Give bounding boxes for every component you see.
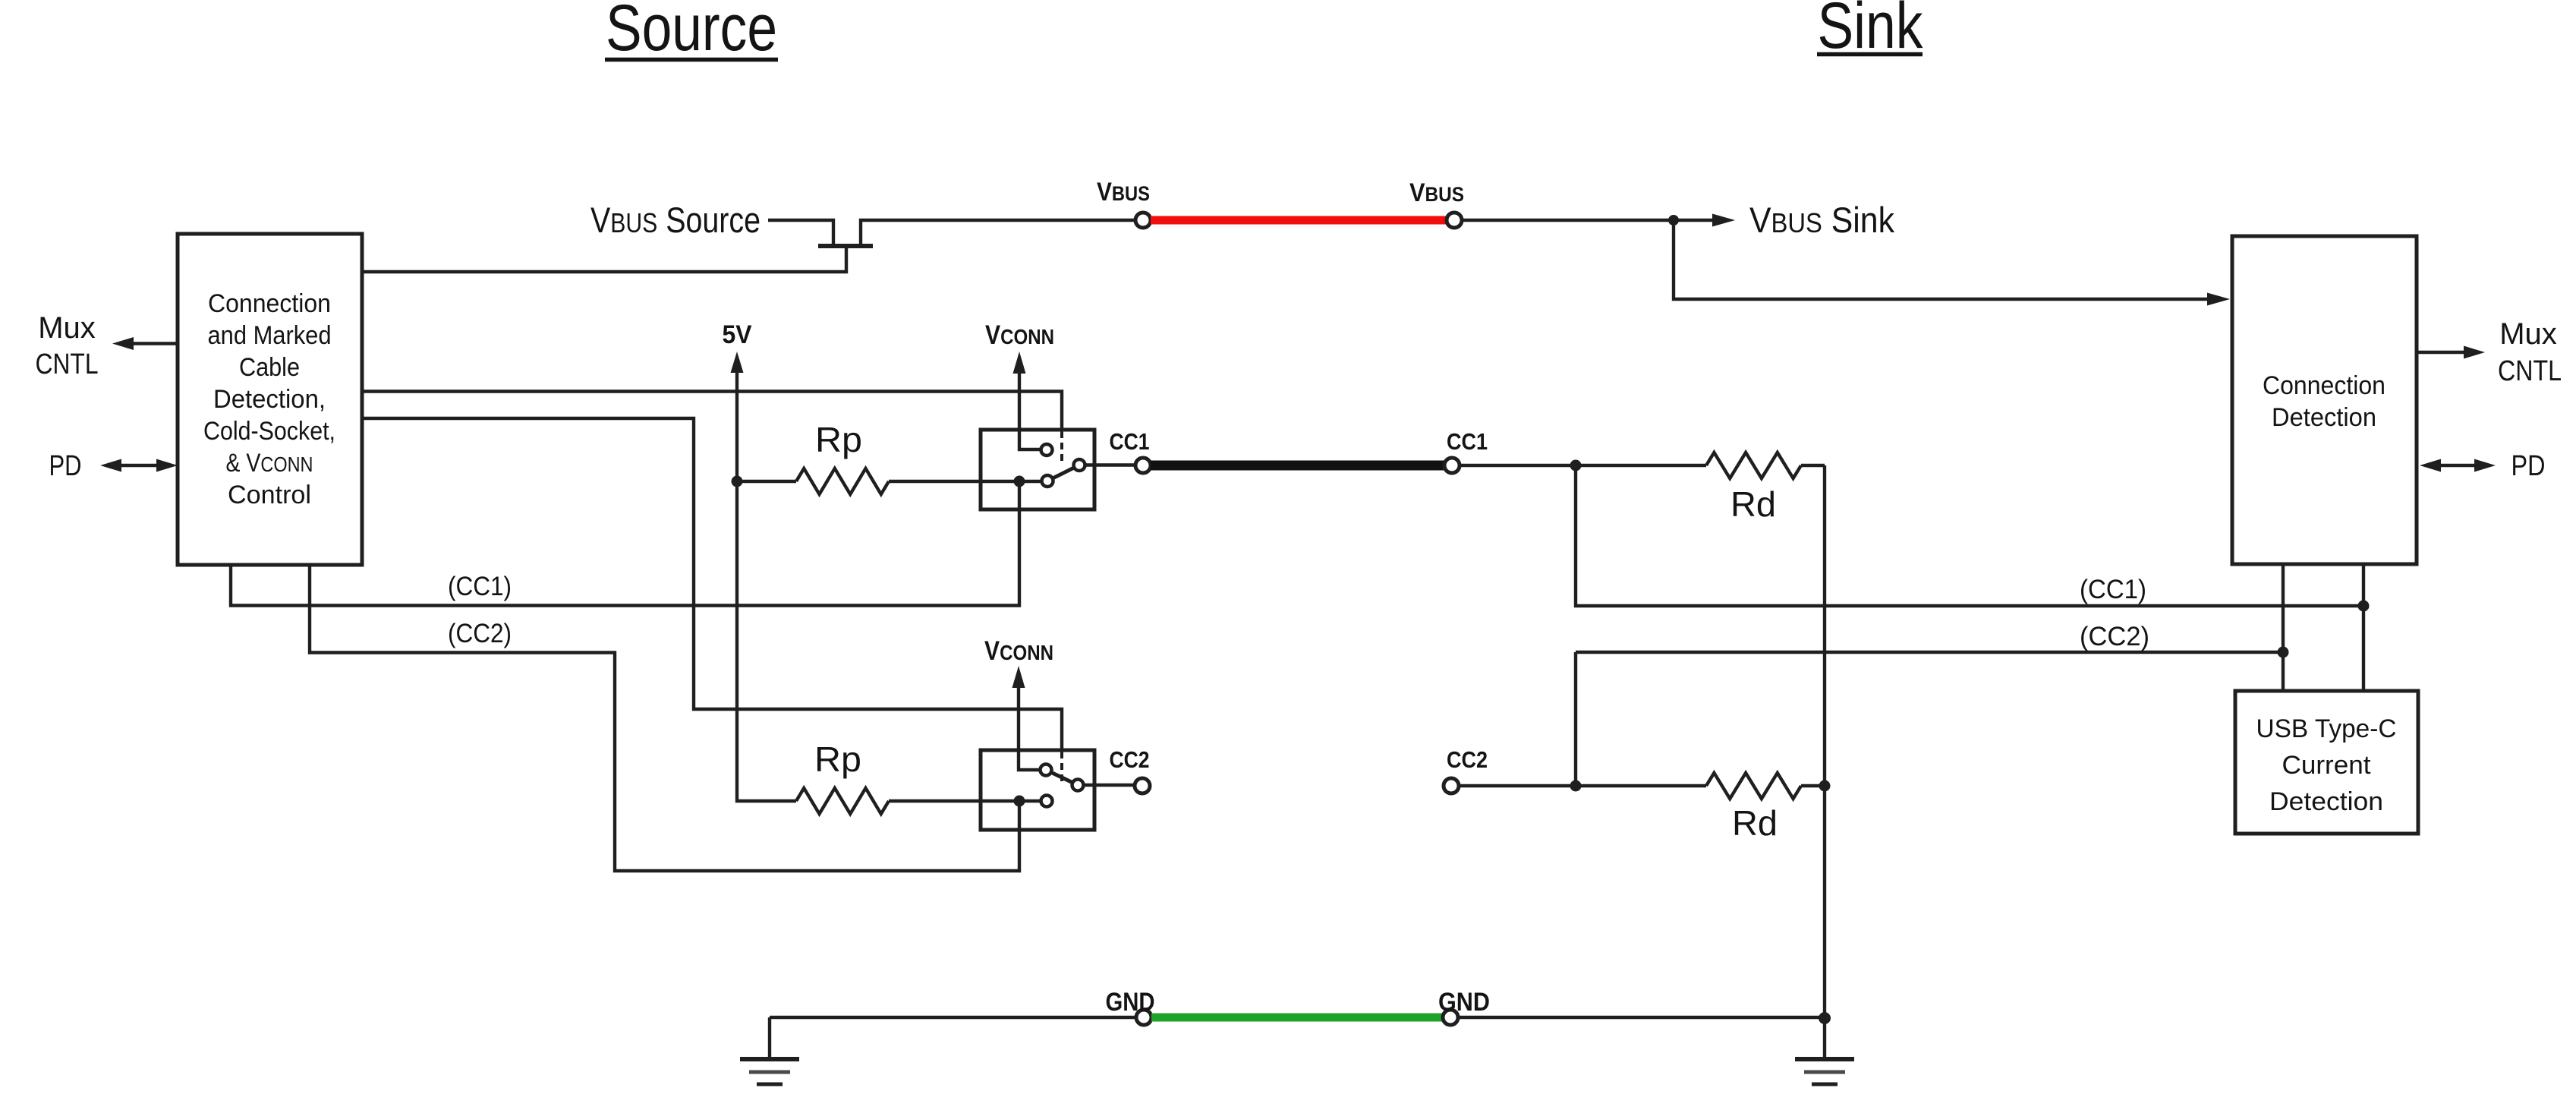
svg-text:Cold-Socket,: Cold-Socket,: [203, 417, 335, 446]
svg-text:Mux: Mux: [38, 311, 96, 345]
cable CC1 (black): [1151, 461, 1444, 471]
resistor Rp1: [737, 420, 1043, 494]
svg-text:5V: 5V: [723, 320, 752, 349]
wire CC2 sink: [1459, 784, 1706, 787]
switch S1 contacts: [1041, 444, 1085, 487]
wire FET gate to controller: [362, 248, 846, 272]
label Mux CNTL (sink): [2498, 317, 2562, 387]
arrow VBUS Sink: [1674, 214, 1735, 227]
power VCONN (S1): [985, 320, 1054, 449]
svg-text:CC1: CC1: [1447, 428, 1488, 455]
node CC1 sink pin: [1444, 458, 1460, 473]
svg-text:GND: GND: [1438, 988, 1490, 1017]
junction S1 pole: [1014, 476, 1025, 487]
svg-text:Mux: Mux: [2499, 317, 2557, 351]
svg-text:VBUS: VBUS: [1409, 178, 1464, 207]
svg-text:USB Type-C: USB Type-C: [2256, 714, 2397, 743]
svg-text:(CC2): (CC2): [2080, 622, 2149, 651]
node GND sink pin: [1443, 1010, 1458, 1025]
svg-text:CC1: CC1: [1110, 428, 1150, 455]
svg-text:Source: Source: [606, 0, 777, 65]
resistor Rd2: [1706, 773, 1825, 843]
arrow Mux CNTL (sink): [2417, 346, 2485, 359]
junction CC1-ConnDet: [2358, 601, 2370, 612]
svg-text:(CC1): (CC1): [2080, 575, 2146, 604]
wire VBUS to junction: [1462, 219, 1674, 222]
svg-text:Cable: Cable: [239, 353, 300, 382]
wire (CC1) sense source: [231, 481, 1019, 606]
junction CC1 sense: [1570, 460, 1582, 471]
block source controller box: [178, 234, 362, 565]
svg-text:(CC1): (CC1): [448, 572, 512, 601]
wire (CC1) sense sink: [1576, 465, 2363, 606]
arrow Mux CNTL (source): [112, 337, 178, 350]
node VBUS source pin: [1135, 213, 1151, 228]
wire GND source: [770, 1016, 1136, 1019]
svg-text:and Marked: and Marked: [208, 321, 332, 350]
node CC1 source pin: [1135, 458, 1151, 473]
svg-text:Detection: Detection: [2272, 403, 2376, 432]
node VBUS sink pin: [1447, 213, 1462, 228]
arrow PD (source): [100, 459, 178, 472]
svg-text:(CC2): (CC2): [448, 619, 512, 648]
svg-text:Detection: Detection: [2269, 787, 2383, 816]
cable VBUS (red): [1151, 216, 1447, 225]
svg-text:CC2: CC2: [1447, 746, 1488, 773]
svg-text:Detection,: Detection,: [213, 385, 326, 414]
junction VBUS sink: [1668, 215, 1679, 225]
resistor Rp2: [796, 739, 1043, 814]
junction Rd2-ground: [1819, 780, 1831, 792]
wire S1 control: [362, 392, 1062, 430]
wire CC1 sink: [1460, 464, 1706, 467]
node CC2 sink pin: [1444, 778, 1459, 793]
svg-text:GND: GND: [1106, 988, 1155, 1017]
svg-text:Rp: Rp: [814, 739, 861, 779]
node CC2 source pin: [1135, 778, 1150, 793]
label Mux CNTL (source): [36, 311, 99, 380]
svg-text:VCONN: VCONN: [984, 636, 1053, 666]
cable GND (green): [1151, 1014, 1443, 1022]
switch S2 contacts: [1041, 765, 1084, 807]
title Sink: [1817, 0, 1923, 62]
svg-text:& VCONN: & VCONN: [226, 449, 313, 478]
svg-text:Rd: Rd: [1730, 484, 1776, 524]
block Connection Detection: [2232, 236, 2417, 564]
arrow PD (sink): [2420, 459, 2496, 472]
stub ConnDet to USB box right: [2362, 565, 2365, 691]
wire Rd1 to ground rail: [1823, 465, 1826, 1018]
wire GND sink: [1458, 1016, 1825, 1019]
junction 5V-Rp1: [732, 476, 743, 487]
title Source: [605, 0, 778, 65]
power VCONN (S2): [984, 636, 1053, 770]
svg-text:Control: Control: [228, 481, 311, 509]
svg-text:Current: Current: [2282, 751, 2372, 780]
svg-text:Rp: Rp: [815, 420, 862, 459]
stub ConnDet to USB box left: [2282, 565, 2285, 691]
transistor Q1 pass FET: [818, 244, 873, 248]
switch S1: [981, 430, 1135, 509]
wire (CC2) sense sink: [1576, 652, 2283, 786]
svg-text:Connection: Connection: [208, 289, 331, 318]
svg-text:PD: PD: [2511, 450, 2546, 482]
svg-text:VBUS: VBUS: [1097, 178, 1150, 207]
ground (source): [740, 1017, 799, 1084]
svg-text:PD: PD: [49, 450, 82, 482]
junction CC2 sense: [1570, 780, 1582, 792]
wire VBUS to Connection Detection: [1674, 220, 2230, 306]
junction CC2-ConnDet: [2278, 647, 2289, 658]
ground (sink): [1795, 1018, 1854, 1084]
wire FET to VBUS pin: [861, 220, 1135, 246]
junction GND-ground rail: [1819, 1012, 1831, 1024]
svg-text:VCONN: VCONN: [985, 320, 1054, 350]
node GND source pin: [1136, 1010, 1151, 1025]
resistor Rd1: [1706, 453, 1825, 524]
svg-text:Rd: Rd: [1732, 803, 1778, 843]
wire (CC2) sense source: [310, 565, 1019, 871]
power 5V: [723, 320, 797, 801]
svg-text:CNTL: CNTL: [2498, 355, 2562, 387]
svg-text:Connection: Connection: [2263, 371, 2385, 400]
block USB Type-C Current Detection: [2235, 691, 2418, 834]
switch S2: [981, 750, 1135, 830]
svg-text:CNTL: CNTL: [36, 348, 99, 380]
svg-text:CC2: CC2: [1110, 746, 1150, 773]
wire VBUS Source to FET: [768, 220, 833, 246]
wire S2 control: [362, 418, 1062, 750]
junction S2 pole: [1014, 796, 1025, 807]
